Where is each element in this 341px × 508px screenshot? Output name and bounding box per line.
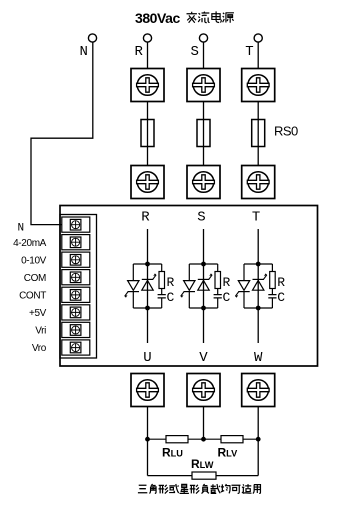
terminal strip cell +5V [62,305,90,320]
svg-text:Vro: Vro [32,343,47,354]
fuse S [197,120,210,147]
svg-text:0-10V: 0-10V [21,256,47,267]
fuse T RS0 [252,120,265,147]
terminal block CB2-S (square with screw) [187,166,220,199]
wire right branch top T [271,264,273,272]
resistor R snubber R [159,272,165,289]
svg-text:W: W [254,350,263,366]
svg-text:S: S [191,44,199,60]
wire C to bottom rail S [217,298,219,308]
terminal strip cell CONT [62,287,90,302]
wire phase T main line in box [257,229,259,343]
wire U down to load [147,407,149,476]
svg-text:R: R [141,209,150,225]
svg-text:RLV: RLV [218,446,239,460]
svg-text:RLU: RLU [162,446,183,460]
wire snubber top rail R [133,263,161,265]
node W-load junction [256,437,261,442]
input terminal R (circle) [143,34,151,42]
resistor RLv [221,436,243,443]
terminal strip outline [60,215,97,359]
resistor RLu [166,436,188,443]
terminal block CB2-T (square with screw) [242,166,275,199]
thyristor Rb (up) [142,274,156,291]
thyristor Sa (down) [181,281,195,298]
wire right branch top R [161,264,163,272]
node S bottom junction [201,306,206,311]
terminal block CB1-S (square with screw) [187,69,220,102]
wire S terminal to breaker [203,42,205,68]
node S top junction [201,262,206,267]
svg-text:R: R [167,275,175,290]
svg-text:T: T [252,209,260,225]
svg-text:T: T [245,44,253,60]
svg-text:S: S [197,209,205,225]
resistor R snubber S [215,272,221,289]
wire left branch S [188,264,190,281]
terminal strip cell COM [62,270,90,285]
wire N: terminal N down, jog left, down to terminal strip [31,42,93,224]
terminal block CB3-V (square with screw) [187,374,220,407]
svg-text:4-20mA: 4-20mA [13,238,47,249]
svg-text:R: R [277,275,285,290]
wire V down to load [203,407,205,440]
svg-text:CONT: CONT [19,291,46,302]
svg-text:N: N [80,44,88,60]
thyristor Tb (up) [253,274,267,291]
terminal block CB3-W (square with screw) [242,374,275,407]
wire snubber top rail S [189,263,217,265]
thyristor Ra (down) [125,281,139,298]
capacitor C snubber R [158,295,166,298]
svg-text:C: C [167,290,175,305]
wire R to C S [217,289,219,295]
svg-text:C: C [223,290,231,305]
node T bottom junction [256,306,261,311]
svg-text:RS0: RS0 [274,124,298,139]
wire T breaker to fuse terminal [257,102,259,166]
wire load top rail [148,438,259,440]
svg-text:C: C [277,290,285,305]
wire load bottom rail [148,475,259,477]
wire R terminal to breaker [147,42,149,68]
svg-text:RLW: RLW [191,457,214,471]
capacitor C snubber T [268,295,276,298]
wire left branch lower R [132,292,134,308]
terminal block CB3-U (square with screw) [131,374,164,407]
controller box outline [60,206,318,367]
terminal strip cell 4-20mA [62,235,90,250]
svg-text:R: R [223,275,231,290]
wire left branch R [132,264,134,281]
wire R breaker to fuse terminal [147,102,149,166]
wire snubber bottom rail S [189,307,217,309]
wire left branch T [243,264,245,281]
terminal strip cell Vri [62,322,90,337]
svg-text:R: R [135,44,144,60]
terminal block CB1-T (square with screw) [242,69,275,102]
wire phase R main line in box [147,229,149,343]
svg-text:V: V [199,350,208,366]
wire R to C T [271,289,273,295]
terminal strip cell Vro [62,340,90,355]
title text 交流电源 (drawn glyphs) [187,11,234,22]
capacitor C snubber S [214,295,222,298]
node U-load junction [145,437,150,442]
svg-text:COM: COM [24,273,46,284]
wire phase S main line in box [203,229,205,343]
terminal strip cell N [62,217,90,232]
fuse R [141,120,154,147]
wire snubber top rail T [244,263,272,265]
note text 三角形或星形负载均可适用 (drawn glyphs) [138,484,261,494]
svg-text:380Vac: 380Vac [135,10,180,26]
terminal strip cell 0-10V [62,252,90,267]
terminal block CB1-R (square with screw) [131,69,164,102]
thyristor Sb (up) [198,274,212,291]
wire left branch lower T [243,292,245,308]
node T top junction [256,262,261,267]
svg-text:Vri: Vri [35,326,46,337]
wire snubber bottom rail R [133,307,161,309]
input terminal N (circle) [88,34,96,42]
wire C to bottom rail R [161,298,163,308]
wire R to C R [161,289,163,295]
node R top junction [145,262,150,267]
wire right branch top S [217,264,219,272]
node R bottom junction [145,306,150,311]
svg-text:+5V: +5V [29,308,47,319]
wire left branch lower S [188,292,190,308]
node V-load junction [201,437,206,442]
wire T terminal to breaker [257,42,259,68]
wire snubber bottom rail T [244,307,272,309]
wire S breaker to fuse terminal [203,102,205,166]
input terminal T (circle) [254,34,262,42]
thyristor Ta (down) [235,281,249,298]
wire W down to load [257,407,259,476]
resistor R snubber T [270,272,276,289]
input terminal S (circle) [199,34,207,42]
svg-text:U: U [143,350,151,366]
wire C to bottom rail T [271,298,273,308]
resistor RLw [192,472,216,479]
svg-text:N: N [18,222,25,234]
terminal block CB2-R (square with screw) [131,166,164,199]
